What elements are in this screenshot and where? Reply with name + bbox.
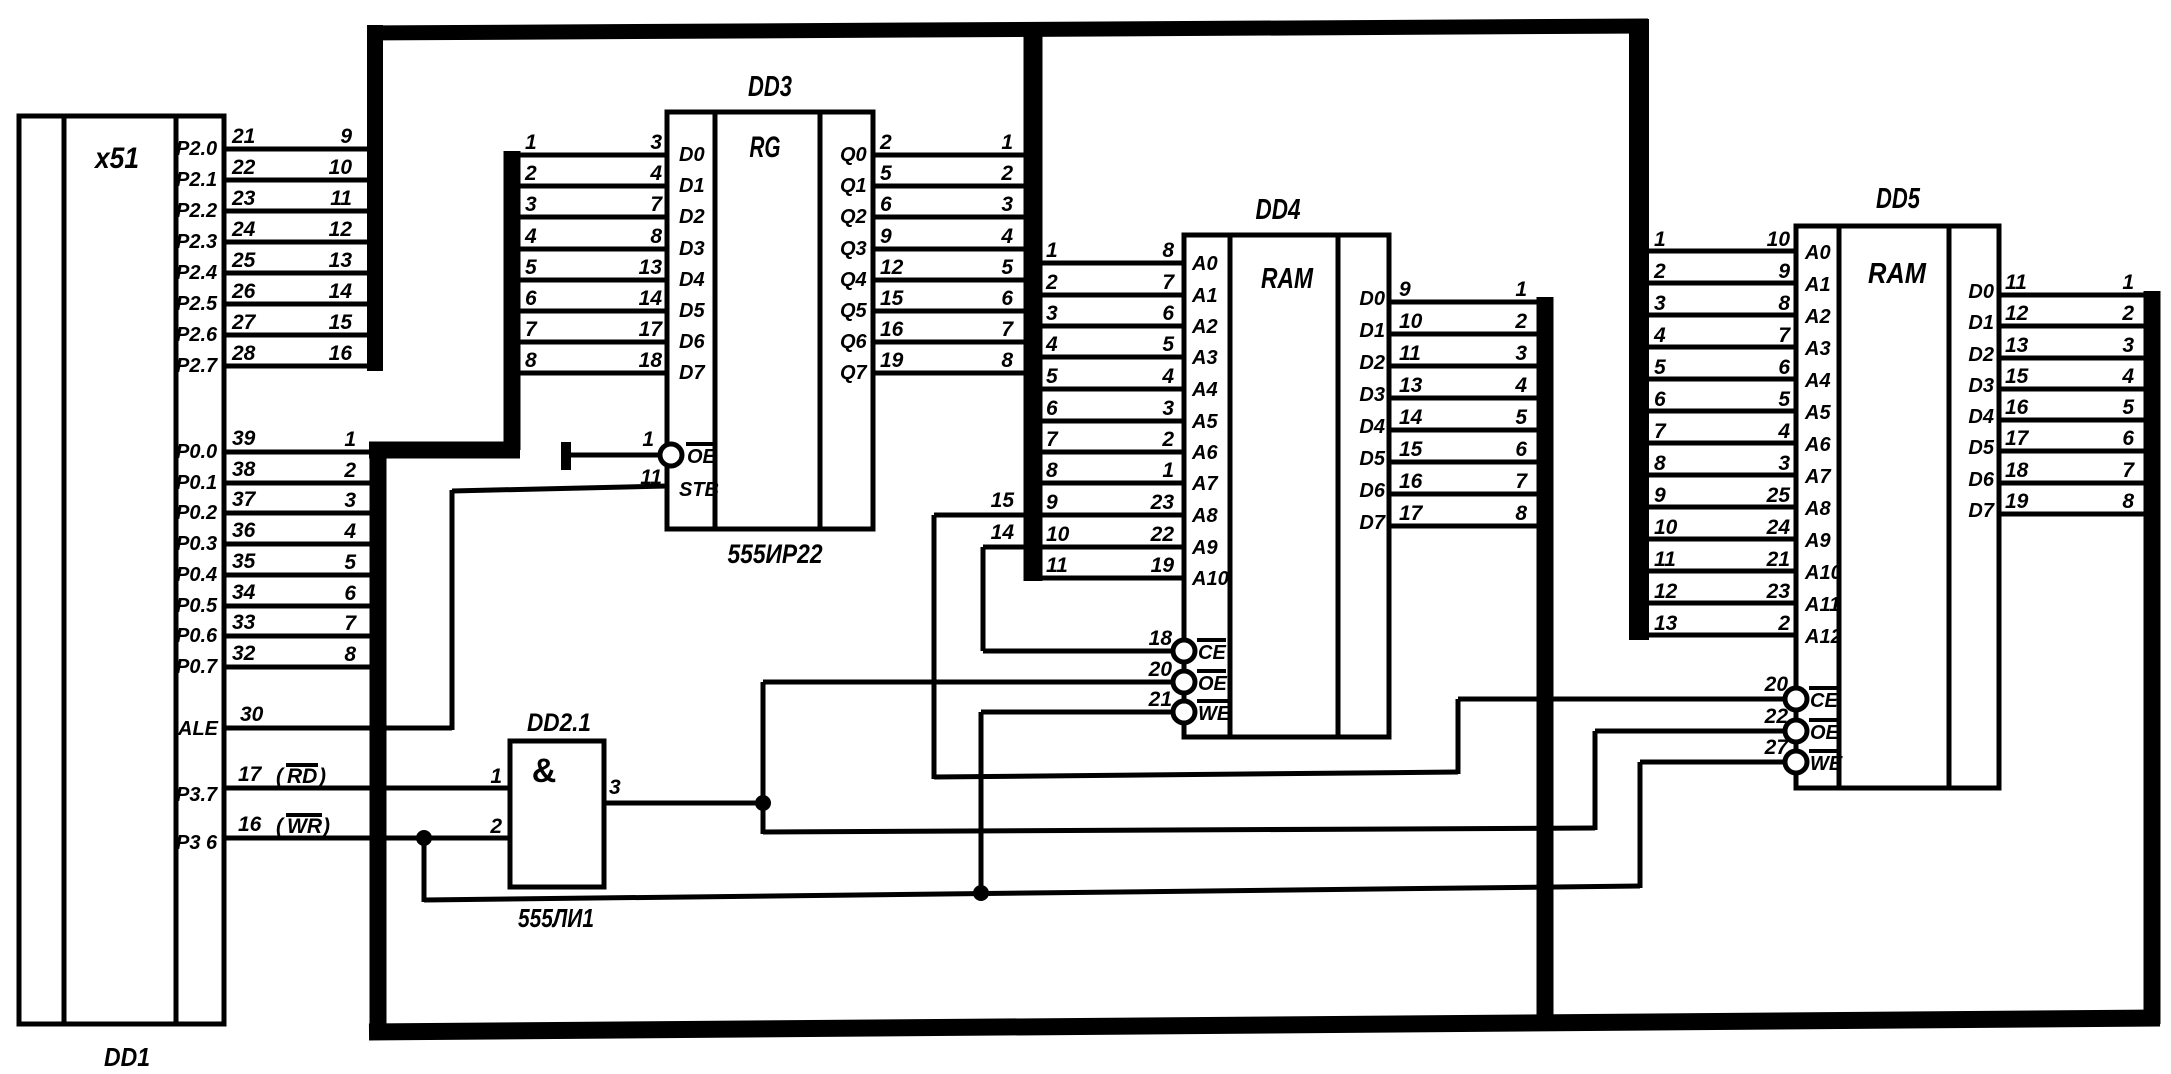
svg-text:CE: CE (1198, 642, 1226, 664)
svg-text:D1: D1 (1359, 320, 1385, 342)
svg-text:12: 12 (329, 218, 353, 241)
svg-text:8: 8 (1515, 502, 1527, 525)
wire DD5 A3 from bus line 4 to pin 7 (1648, 345, 1796, 350)
wire DD3 Q3 pin 9 to bus line 4 (873, 247, 1025, 252)
wire DD5 A2 from bus line 3 to pin 8 (1648, 313, 1796, 318)
svg-text:19: 19 (880, 349, 904, 372)
svg-text:P0.4: P0.4 (176, 564, 217, 586)
svg-text:2: 2 (1045, 271, 1058, 294)
wire OE net horizontal to DD5 (763, 828, 1595, 832)
svg-text:P2.1: P2.1 (176, 169, 217, 191)
svg-text:ALE: ALE (177, 718, 219, 740)
wire P2.6 pin 27 to bus line 15 (224, 333, 370, 338)
wire DD4 D3 pin 13 to bus line 4 (1389, 396, 1538, 401)
svg-text:38: 38 (232, 458, 256, 481)
op-amp/AND gate DD2.1 body (510, 741, 604, 887)
svg-text:D5: D5 (1968, 437, 1994, 459)
svg-text:Q0: Q0 (840, 144, 867, 166)
svg-text:A8: A8 (1191, 505, 1218, 527)
svg-text:17: 17 (639, 318, 664, 341)
svg-text:A5: A5 (1804, 402, 1831, 424)
wire WR net vertical drop (422, 838, 427, 902)
svg-text:1: 1 (344, 428, 356, 451)
wire DD4 A5 from bus line 6 to pin 3 (1042, 419, 1184, 424)
wire bus line 15 vertical down (932, 515, 937, 779)
wire P2.1 pin 22 to bus line 10 (224, 178, 370, 183)
svg-text:2: 2 (879, 131, 892, 154)
svg-text:A3: A3 (1191, 347, 1218, 369)
svg-text:D4: D4 (1359, 416, 1385, 438)
svg-text:5: 5 (880, 162, 892, 185)
svg-text:11: 11 (2005, 271, 2027, 294)
svg-text:P3.7: P3.7 (176, 784, 218, 806)
svg-text:D0: D0 (1968, 281, 1994, 303)
svg-text:5: 5 (1654, 356, 1666, 379)
wire P2.7 pin 28 to bus line 16 (224, 364, 370, 369)
svg-text:7: 7 (344, 612, 357, 635)
svg-text:10: 10 (1654, 516, 1678, 539)
wire DD2.1 output pin 3 (604, 801, 766, 806)
svg-text:2: 2 (343, 459, 356, 482)
svg-text:14: 14 (639, 287, 663, 310)
wire WR net horizontal (424, 886, 1640, 900)
svg-text:P0.0: P0.0 (176, 441, 217, 463)
svg-text:4: 4 (1045, 333, 1058, 356)
wire DD5 D1 pin 12 to bus line 2 (1999, 324, 2144, 329)
bus vertical DD5 address (1629, 19, 1649, 640)
DD5 left pin column divider (1837, 226, 1842, 788)
svg-text:): ) (317, 765, 326, 788)
svg-text:A10: A10 (1804, 562, 1842, 584)
svg-text:D6: D6 (1968, 469, 1994, 491)
wire DD5 A10 from bus line 11 to pin 21 (1648, 569, 1796, 574)
svg-text:P0.1: P0.1 (176, 472, 217, 494)
svg-text:5: 5 (1515, 406, 1527, 429)
wire DD4 A7 from bus line 8 to pin 1 (1042, 481, 1184, 486)
wire DD5 A8 from bus line 9 to pin 25 (1648, 505, 1796, 510)
svg-text:D2: D2 (1359, 352, 1385, 374)
svg-text:18: 18 (1149, 627, 1173, 650)
svg-text:A6: A6 (1804, 434, 1831, 456)
svg-text:32: 32 (232, 642, 256, 665)
wire DD4 A9 from bus line 10 to pin 22 (1042, 545, 1184, 550)
svg-text:A12: A12 (1804, 626, 1842, 648)
bus jog horizontal at P0.0 (369, 442, 520, 459)
svg-text:21: 21 (231, 125, 255, 148)
svg-text:4: 4 (1777, 420, 1790, 443)
svg-text:DD3: DD3 (748, 71, 792, 103)
wire DD4 A4 from bus line 5 to pin 4 (1042, 387, 1184, 392)
svg-text:D1: D1 (1968, 312, 1994, 334)
wire DD4 A8 from bus line 9 to pin 23 (1042, 513, 1184, 518)
wire DD4 A3 from bus line 4 to pin 5 (1042, 355, 1184, 360)
svg-text:5: 5 (525, 256, 537, 279)
DD4 OE bubble (1173, 671, 1195, 693)
svg-text:5: 5 (1046, 365, 1058, 388)
svg-text:27: 27 (1764, 736, 1790, 759)
svg-text:1: 1 (1162, 459, 1174, 482)
svg-text:5: 5 (1162, 333, 1174, 356)
svg-text:8: 8 (1778, 292, 1790, 315)
wire DD5 A7 from bus line 8 to pin 3 (1648, 473, 1796, 478)
DD4 left pin column divider (1228, 235, 1233, 737)
wire bus line 15 horizontal to DD5 (934, 772, 1458, 777)
svg-text:20: 20 (1764, 673, 1789, 696)
svg-text:6: 6 (1162, 302, 1174, 325)
svg-text:3: 3 (1001, 193, 1013, 216)
wire DD5 CE from bus line 15 (1458, 697, 1785, 702)
wire DD4 D6 pin 16 to bus line 7 (1389, 492, 1538, 497)
wire DD4 D0 pin 9 to bus line 1 (1389, 300, 1538, 305)
svg-text:3: 3 (1162, 397, 1174, 420)
wire DD5 D2 pin 13 to bus line 3 (1999, 356, 2144, 361)
DD3 left pin column divider (713, 112, 718, 529)
svg-text:Q6: Q6 (840, 331, 868, 353)
svg-text:1: 1 (525, 131, 537, 154)
svg-text:21: 21 (1148, 688, 1172, 711)
svg-text:6: 6 (2122, 427, 2134, 450)
svg-text:7: 7 (650, 193, 663, 216)
svg-text:6: 6 (525, 287, 537, 310)
svg-text:Q2: Q2 (840, 206, 867, 228)
svg-text:16: 16 (329, 342, 353, 365)
svg-text:P2.7: P2.7 (176, 355, 218, 377)
svg-text:36: 36 (232, 519, 256, 542)
svg-text:19: 19 (2005, 490, 2029, 513)
wire DD3 Q0 pin 2 to bus line 1 (873, 153, 1025, 158)
svg-text:P2.5: P2.5 (176, 293, 218, 315)
svg-text:22: 22 (1764, 705, 1789, 728)
svg-text:A11: A11 (1804, 594, 1840, 616)
svg-text:4: 4 (1653, 324, 1666, 347)
svg-text:2: 2 (1653, 260, 1666, 283)
wire P0.6 pin 33 to bus line 7 (224, 634, 373, 639)
wire DD5 A5 from bus line 6 to pin 5 (1648, 409, 1796, 414)
wire DD4 D4 pin 14 to bus line 5 (1389, 428, 1538, 433)
wire DD5 D4 pin 16 to bus line 5 (1999, 418, 2144, 423)
svg-text:6: 6 (1778, 356, 1790, 379)
wire DD4 A6 from bus line 7 to pin 2 (1042, 450, 1184, 455)
svg-text:9: 9 (880, 225, 892, 248)
MCU DD1 internal divider right (174, 116, 179, 1024)
svg-text:2: 2 (1777, 612, 1790, 635)
svg-text:9: 9 (1654, 484, 1666, 507)
wire ALE vertical to STB (450, 490, 455, 730)
DD5 CE bubble (1785, 688, 1807, 710)
svg-text:Q4: Q4 (840, 269, 867, 291)
svg-text:7: 7 (525, 318, 538, 341)
svg-text:A1: A1 (1191, 285, 1218, 307)
svg-text:8: 8 (344, 643, 356, 666)
svg-text:5: 5 (344, 551, 356, 574)
svg-text:P0.6: P0.6 (176, 625, 218, 647)
svg-text:P2.3: P2.3 (176, 231, 217, 253)
svg-text:RAM: RAM (1868, 258, 1927, 290)
svg-text:11: 11 (1399, 342, 1421, 365)
svg-text:A0: A0 (1191, 253, 1218, 275)
svg-text:8: 8 (1046, 459, 1058, 482)
svg-text:2: 2 (1514, 310, 1527, 333)
wire DD3 D5 from bus line 6 to pin 14 (519, 309, 667, 314)
wire DD4 A2 from bus line 3 to pin 6 (1042, 324, 1184, 329)
wire DD5 WE from WR net (1638, 762, 1643, 888)
svg-text:Q7: Q7 (840, 362, 868, 384)
bus vertical DD4 data (1537, 297, 1554, 1026)
svg-text:16: 16 (880, 318, 904, 341)
svg-text:16: 16 (1399, 470, 1423, 493)
svg-text:4: 4 (1000, 225, 1013, 248)
svg-text:P0.3: P0.3 (176, 533, 217, 555)
svg-text:10: 10 (1046, 523, 1070, 546)
wire DD4 D2 pin 11 to bus line 3 (1389, 364, 1538, 369)
svg-text:2: 2 (524, 162, 537, 185)
svg-text:D5: D5 (679, 300, 705, 322)
svg-text:A4: A4 (1804, 370, 1831, 392)
svg-text:D7: D7 (679, 362, 705, 384)
svg-text:5: 5 (1778, 388, 1790, 411)
wire DD5 A0 from bus line 1 to pin 10 (1648, 249, 1796, 254)
svg-text:37: 37 (232, 488, 257, 511)
svg-text:6: 6 (344, 582, 356, 605)
wire DD5 A6 from bus line 7 to pin 4 (1648, 441, 1796, 446)
svg-text:6: 6 (1654, 388, 1666, 411)
wire P2.3 pin 24 to bus line 12 (224, 240, 370, 245)
svg-text:7: 7 (1162, 271, 1175, 294)
wire DD3 D3 from bus line 4 to pin 8 (519, 247, 667, 252)
svg-text:D0: D0 (679, 144, 705, 166)
svg-text:3: 3 (525, 193, 537, 216)
svg-text:4: 4 (649, 162, 662, 185)
wire DD3 D1 from bus line 2 to pin 4 (519, 184, 667, 189)
bus vertical P2 segment (367, 25, 383, 371)
svg-text:D2: D2 (679, 206, 705, 228)
svg-text:24: 24 (1766, 516, 1791, 539)
svg-text:8: 8 (1001, 349, 1013, 372)
svg-text:10: 10 (1399, 310, 1423, 333)
wire DD3 STB pin 11 from ALE (452, 486, 667, 491)
svg-text:3: 3 (1515, 342, 1527, 365)
svg-text:Q3: Q3 (840, 238, 867, 260)
svg-text:9: 9 (1778, 260, 1790, 283)
svg-text:7: 7 (1046, 428, 1059, 451)
wire WR pin 16 from MCU to DD2.1 pin 2 (224, 836, 510, 841)
wire RD pin 17 to DD2.1 pin 1 (224, 786, 510, 791)
wire DD3 Q5 pin 15 to bus line 6 (873, 309, 1025, 314)
svg-text:23: 23 (1150, 491, 1175, 514)
svg-text:20: 20 (1148, 658, 1173, 681)
svg-text:5: 5 (2122, 396, 2134, 419)
svg-text:39: 39 (232, 427, 256, 450)
svg-text:DD4: DD4 (1256, 194, 1301, 226)
svg-text:4: 4 (1514, 374, 1527, 397)
svg-text:19: 19 (1151, 554, 1175, 577)
svg-text:D2: D2 (1968, 344, 1994, 366)
svg-text:13: 13 (2005, 334, 2029, 357)
DD3 right pin column divider (818, 112, 823, 529)
wire DD5 D7 pin 19 to bus line 8 (1999, 512, 2144, 517)
wire P0.0 pin 39 to bus line 1 (224, 450, 373, 455)
svg-text:11: 11 (1654, 548, 1676, 571)
DD3 OE terminator bar (561, 442, 571, 470)
svg-text:4: 4 (2121, 365, 2134, 388)
svg-text:A9: A9 (1804, 530, 1831, 552)
wire ALE pin 30 to DD3 STB (224, 726, 452, 731)
svg-text:6: 6 (1515, 438, 1527, 461)
svg-text:8: 8 (650, 225, 662, 248)
wire P0.7 pin 32 to bus line 8 (224, 665, 373, 670)
bus top horizontal bar (367, 26, 1648, 33)
svg-text:13: 13 (329, 249, 353, 272)
wire DD4 CE from bus line 14 (981, 547, 986, 651)
svg-text:A8: A8 (1804, 498, 1831, 520)
svg-text:18: 18 (2005, 459, 2029, 482)
wire DD3 Q1 pin 5 to bus line 2 (873, 184, 1025, 189)
svg-text:CE: CE (1810, 690, 1838, 712)
wire DD5 D6 pin 18 to bus line 7 (1999, 481, 2144, 486)
svg-text:14: 14 (991, 521, 1015, 544)
svg-text:15: 15 (329, 311, 353, 334)
wire DD4 A1 from bus line 2 to pin 7 (1042, 293, 1184, 298)
junction WR to DD4 WE (973, 885, 989, 901)
svg-text:WE: WE (1198, 703, 1231, 725)
svg-text:35: 35 (232, 550, 256, 573)
svg-text:8: 8 (2122, 490, 2134, 513)
svg-text:STB: STB (679, 479, 719, 501)
svg-text:A10: A10 (1191, 568, 1229, 590)
wire P2.0 pin 21 to bus line 9 (224, 147, 370, 152)
svg-text:D4: D4 (1968, 406, 1994, 428)
svg-text:3: 3 (609, 776, 621, 799)
wire DD5 D3 pin 15 to bus line 4 (1999, 387, 2144, 392)
wire OE net vertical (761, 682, 766, 834)
wire up to DD5 CE (1456, 699, 1461, 774)
svg-text:P3 6: P3 6 (176, 832, 218, 854)
wire DD4 OE from DD2.1 output (763, 680, 1173, 685)
svg-text:15: 15 (1399, 438, 1423, 461)
svg-text:3: 3 (1778, 452, 1790, 475)
wire DD4 A0 from bus line 1 to pin 8 (1042, 261, 1184, 266)
wire DD4 D7 pin 17 to bus line 8 (1389, 524, 1538, 529)
svg-text:9: 9 (340, 125, 352, 148)
svg-text:A0: A0 (1804, 242, 1831, 264)
svg-text:3: 3 (344, 489, 356, 512)
DD5 OE bubble (1785, 720, 1807, 742)
wire bus line 15 stub at A8 row (934, 513, 1025, 518)
svg-text:WE: WE (1810, 753, 1843, 775)
svg-text:23: 23 (1766, 580, 1791, 603)
wire DD3 Q2 pin 6 to bus line 3 (873, 215, 1025, 220)
wire P2.2 pin 23 to bus line 11 (224, 209, 370, 214)
wire DD4 WE from WR net (979, 712, 984, 895)
svg-text:P0.2: P0.2 (176, 502, 217, 524)
wire DD5 D0 pin 11 to bus line 1 (1999, 293, 2144, 298)
svg-text:11: 11 (330, 187, 352, 210)
svg-text:DD2.1: DD2.1 (527, 709, 591, 737)
svg-text:1: 1 (1001, 131, 1013, 154)
svg-text:9: 9 (1046, 491, 1058, 514)
svg-text:2: 2 (489, 815, 502, 838)
svg-text:A2: A2 (1804, 306, 1831, 328)
svg-text:2: 2 (1000, 162, 1013, 185)
svg-text:3: 3 (2122, 334, 2134, 357)
svg-text:A5: A5 (1191, 411, 1218, 433)
svg-text:12: 12 (1654, 580, 1678, 603)
svg-text:23: 23 (231, 187, 256, 210)
svg-text:14: 14 (329, 280, 353, 303)
svg-text:6: 6 (880, 193, 892, 216)
svg-text:1: 1 (490, 765, 502, 788)
svg-text:14: 14 (1399, 406, 1423, 429)
junction OE net (755, 795, 771, 811)
svg-text:17: 17 (1399, 502, 1424, 525)
wire P0.1 pin 38 to bus line 2 (224, 481, 373, 486)
wire bus line 14 stub at A9 row (983, 545, 1025, 550)
svg-text:15: 15 (991, 489, 1015, 512)
wire DD3 Q7 pin 19 to bus line 8 (873, 371, 1025, 376)
wire DD3 D2 from bus line 3 to pin 7 (519, 215, 667, 220)
svg-text:26: 26 (231, 280, 256, 303)
svg-text:A2: A2 (1191, 316, 1218, 338)
svg-text:D4: D4 (679, 269, 705, 291)
wire DD3 D6 from bus line 7 to pin 17 (519, 340, 667, 345)
svg-text:15: 15 (880, 287, 904, 310)
svg-text:17: 17 (2005, 427, 2030, 450)
wire DD5 A9 from bus line 10 to pin 24 (1648, 537, 1796, 542)
svg-text:P2.4: P2.4 (176, 262, 217, 284)
svg-text:28: 28 (231, 342, 256, 365)
MCU DD1 internal divider left (62, 116, 67, 1024)
wire DD3 Q6 pin 16 to bus line 7 (873, 340, 1025, 345)
svg-text:A6: A6 (1191, 442, 1218, 464)
svg-text:D1: D1 (679, 175, 705, 197)
svg-text:D3: D3 (679, 238, 705, 260)
svg-text:12: 12 (880, 256, 904, 279)
svg-text:4: 4 (1161, 365, 1174, 388)
svg-text:DD5: DD5 (1876, 183, 1921, 215)
svg-text:3: 3 (1046, 302, 1058, 325)
wire P2.4 pin 25 to bus line 13 (224, 271, 370, 276)
svg-text:33: 33 (232, 611, 256, 634)
svg-text:3: 3 (650, 131, 662, 154)
svg-text:A7: A7 (1191, 473, 1218, 495)
bus vertical DD3 outputs / DD4 address (1024, 22, 1043, 581)
wire DD5 A1 from bus line 2 to pin 9 (1648, 281, 1796, 286)
svg-text:12: 12 (2005, 302, 2029, 325)
DD4 right pin column divider (1336, 235, 1341, 737)
svg-text:A1: A1 (1804, 274, 1831, 296)
bus vertical DD3 data inputs (504, 151, 521, 450)
svg-text:A7: A7 (1804, 466, 1831, 488)
svg-text:A4: A4 (1191, 379, 1218, 401)
svg-text:A9: A9 (1191, 537, 1218, 559)
wire DD4 D1 pin 10 to bus line 2 (1389, 332, 1538, 337)
svg-text:17: 17 (238, 763, 263, 786)
svg-text:1: 1 (1046, 239, 1058, 262)
svg-text:7: 7 (1001, 318, 1014, 341)
svg-text:21: 21 (1766, 548, 1790, 571)
svg-text:5: 5 (1001, 256, 1013, 279)
svg-text:13: 13 (1654, 612, 1678, 635)
wire DD5 A11 from bus line 12 to pin 23 (1648, 601, 1796, 606)
svg-text:4: 4 (343, 520, 356, 543)
svg-text:18: 18 (639, 349, 663, 372)
svg-text:30: 30 (240, 703, 264, 726)
svg-text:16: 16 (238, 813, 262, 836)
svg-text:7: 7 (1778, 324, 1791, 347)
wire DD5 A12 from bus line 13 to pin 2 (1648, 633, 1796, 638)
wire P0.5 pin 34 to bus line 6 (224, 604, 373, 609)
svg-text:1: 1 (2122, 271, 2134, 294)
